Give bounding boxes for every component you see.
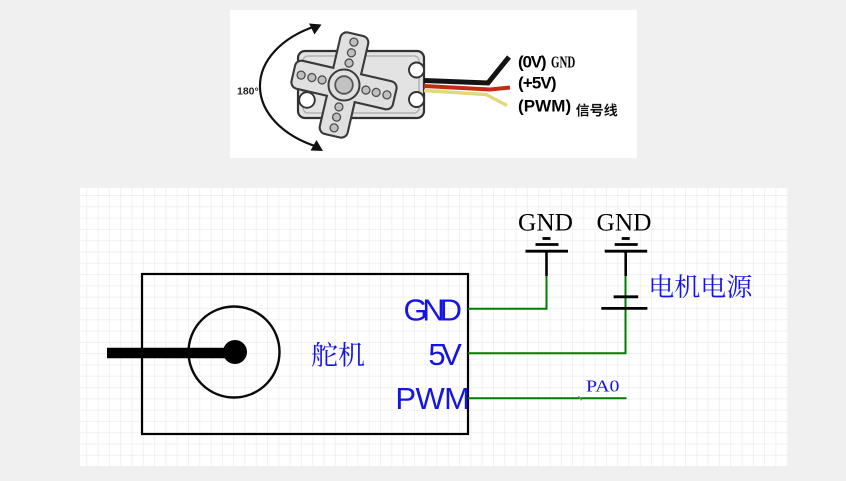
svg-text:GND: GND	[404, 293, 463, 328]
svg-text:(0V): (0V)	[518, 53, 547, 72]
svg-text:PA0: PA0	[586, 376, 620, 395]
svg-text:(+5V): (+5V)	[518, 74, 557, 93]
svg-text:GND: GND	[518, 208, 573, 237]
svg-text:5V: 5V	[428, 337, 462, 372]
svg-text:(PWM): (PWM)	[518, 97, 571, 116]
svg-text:GND: GND	[597, 208, 652, 237]
svg-text:GND: GND	[551, 52, 575, 71]
svg-text:PWM: PWM	[395, 381, 470, 416]
svg-text:180°: 180°	[237, 86, 259, 98]
